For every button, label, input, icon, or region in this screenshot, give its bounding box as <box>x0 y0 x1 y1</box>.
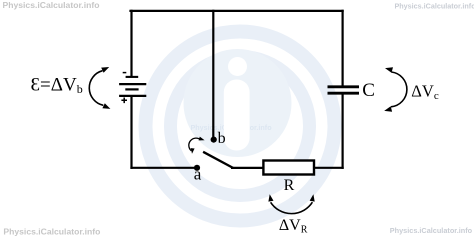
voltage arc resistor <box>268 194 314 213</box>
svg-text:b: b <box>218 130 226 147</box>
battery minus sign <box>123 72 127 74</box>
svg-text:Physics.iCalculator.info: Physics.iCalculator.info <box>390 226 473 235</box>
watermark disc <box>184 49 292 157</box>
wire right upper <box>342 10 344 86</box>
svg-text:Physics.iCalculator.info: Physics.iCalculator.info <box>3 227 100 237</box>
battery plate long bottom <box>119 95 146 97</box>
switch motion arrow <box>189 137 205 154</box>
switch lever <box>203 152 233 168</box>
svg-text:a: a <box>194 164 202 183</box>
voltage arc capacitor <box>384 67 407 111</box>
watermark outer ring <box>146 32 335 221</box>
wire right lower <box>342 95 344 169</box>
resistor R box <box>263 161 314 175</box>
capacitor C plate top <box>328 85 360 88</box>
wire bottom-right to resistor <box>231 167 264 169</box>
wire left lower <box>130 96 132 169</box>
battery plate long <box>119 83 146 85</box>
wire resistor to right <box>314 167 344 169</box>
svg-text:ΔVR: ΔVR <box>279 217 308 235</box>
wire bottom-left <box>130 167 197 169</box>
battery plate short top <box>126 76 139 78</box>
wire left upper <box>130 10 132 77</box>
voltage arc battery <box>89 67 110 109</box>
battery B1 <box>119 73 146 104</box>
watermark i dot <box>228 57 247 76</box>
battery plus sign <box>121 98 127 104</box>
svg-text:C: C <box>362 80 375 101</box>
svg-text:R: R <box>284 177 295 194</box>
capacitor C plate bottom <box>328 92 360 95</box>
wire top <box>129 10 343 12</box>
watermark i stem <box>224 80 250 151</box>
node b dot <box>211 137 217 143</box>
svg-text:Ɛ=ΔVb: Ɛ=ΔVb <box>31 74 83 96</box>
wire middle vertical <box>212 10 214 140</box>
battery plate short <box>125 88 138 90</box>
svg-text:Physics.iCalculator.info: Physics.iCalculator.info <box>395 1 474 10</box>
watermark middle ring <box>171 57 310 196</box>
svg-text:ΔVc: ΔVc <box>411 82 439 102</box>
node a dot <box>194 165 200 171</box>
svg-text:Physics.iCalculator.info: Physics.iCalculator.info <box>3 0 100 10</box>
